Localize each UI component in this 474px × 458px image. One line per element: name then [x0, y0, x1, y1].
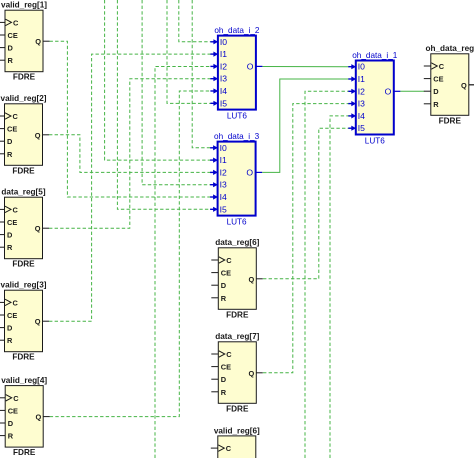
wire net data_reg[6].Q -> oh_data_i_1 I5: [263, 128, 349, 279]
svg-text:CE: CE: [8, 406, 18, 415]
svg-text:D: D: [7, 324, 13, 333]
svg-text:O: O: [247, 61, 254, 71]
svg-text:LUT6: LUT6: [227, 218, 247, 227]
flip-flop valid_reg[4] (FDRE): [0, 376, 50, 457]
svg-text:D: D: [8, 44, 14, 53]
flip-flop data_reg[6] (FDRE): [211, 238, 262, 319]
svg-text:FDRE: FDRE: [12, 353, 35, 362]
wire net data_reg[5].Q -> oh_data_i_2 I3: [49, 79, 211, 229]
oh_data_i_3 pin I0: [210, 147, 215, 149]
svg-text:I0: I0: [220, 143, 227, 153]
flip-flop valid_reg[3] (FDRE): [0, 281, 49, 362]
oh_data_i_1 pin I5: [348, 127, 353, 129]
svg-text:CE: CE: [7, 125, 17, 134]
svg-text:D: D: [7, 137, 13, 146]
svg-text:Q: Q: [35, 317, 41, 326]
svg-text:C: C: [13, 112, 19, 121]
svg-text:I2: I2: [220, 167, 227, 177]
svg-text:I4: I4: [220, 192, 227, 202]
svg-text:I1: I1: [220, 155, 227, 165]
svg-text:CE: CE: [7, 311, 17, 320]
svg-text:oh_data_reg: oh_data_reg: [425, 44, 474, 53]
svg-text:CE: CE: [7, 218, 17, 227]
wire net valid_reg[2].Q -> oh_data_i_3 I2: [49, 135, 211, 173]
svg-text:CE: CE: [8, 31, 18, 40]
LUT6 oh_data_i_1: [348, 51, 400, 146]
svg-text:LUT6: LUT6: [227, 112, 247, 121]
oh_data_i_1 pin I4: [348, 115, 353, 117]
svg-text:Q: Q: [461, 81, 467, 90]
svg-text:FDRE: FDRE: [12, 166, 35, 175]
svg-text:LUT6: LUT6: [365, 137, 385, 146]
svg-text:I1: I1: [220, 49, 227, 59]
svg-text:Q: Q: [249, 275, 255, 284]
svg-text:data_reg[7]: data_reg[7]: [215, 332, 259, 341]
svg-text:I0: I0: [220, 37, 227, 47]
svg-text:I4: I4: [358, 111, 365, 121]
svg-text:R: R: [221, 294, 227, 303]
svg-text:I1: I1: [358, 74, 365, 84]
oh_data_i_3 pin I1: [210, 159, 215, 161]
LUT6 oh_data_i_2: [210, 26, 262, 121]
svg-text:FDRE: FDRE: [226, 310, 249, 319]
flip-flop valid_reg[2] (FDRE): [0, 94, 49, 175]
wire net oh_data_i_1.O -> oh_data_reg D: [400, 90, 424, 92]
svg-text:data_reg[6]: data_reg[6]: [215, 238, 259, 247]
wire net from top -> oh_data_i_2 I0: [179, 0, 211, 42]
svg-text:I2: I2: [220, 61, 227, 71]
svg-text:Q: Q: [35, 224, 41, 233]
svg-text:FDRE: FDRE: [13, 448, 36, 457]
svg-text:I4: I4: [220, 86, 227, 96]
svg-text:C: C: [226, 350, 232, 359]
wire net from top -> oh_data_i_3 I1: [105, 0, 211, 160]
svg-text:Q: Q: [249, 369, 255, 378]
svg-text:oh_data_i_3: oh_data_i_3: [214, 132, 260, 141]
oh_data_i_2 pin I4: [210, 90, 215, 92]
svg-text:R: R: [8, 56, 14, 65]
svg-text:I3: I3: [220, 180, 227, 190]
svg-text:C: C: [13, 205, 19, 214]
svg-text:D: D: [221, 281, 227, 290]
svg-text:CE: CE: [221, 269, 231, 278]
svg-text:I5: I5: [220, 98, 227, 108]
svg-text:I0: I0: [358, 62, 365, 72]
oh_data_i_2 pin I3: [210, 78, 215, 80]
svg-text:FDRE: FDRE: [12, 260, 35, 269]
wire net from top -> oh_data_i_3 I0: [192, 0, 211, 148]
oh_data_i_3 pin I5: [210, 208, 215, 210]
svg-text:R: R: [7, 336, 13, 345]
svg-text:D: D: [8, 419, 14, 428]
svg-text:C: C: [13, 394, 19, 403]
oh_data_i_2 pin I0: [210, 41, 215, 43]
svg-text:R: R: [8, 432, 14, 441]
svg-text:oh_data_i_2: oh_data_i_2: [214, 26, 260, 35]
oh_data_i_2 pin I1: [210, 53, 215, 55]
wire net from bottom -> oh_data_i_1 I2: [305, 91, 349, 458]
wire net oh_data_i_3.O -> oh_data_i_1 I1: [262, 79, 349, 172]
svg-text:D: D: [7, 231, 13, 240]
flip-flop data_reg[7] (FDRE): [211, 332, 262, 413]
svg-text:Q: Q: [35, 37, 41, 46]
oh_data_i_1 pin I1: [348, 78, 353, 80]
wire net from bottom -> oh_data_i_2 I2: [155, 67, 211, 458]
svg-text:R: R: [7, 243, 13, 252]
flip-flop valid_reg[6] (FDRE): [211, 426, 260, 458]
LUT6 oh_data_i_3: [210, 132, 262, 227]
svg-text:valid_reg[6]: valid_reg[6]: [214, 426, 260, 435]
wire net from top -> oh_data_i_3 I5: [117, 0, 210, 209]
svg-text:CE: CE: [433, 75, 443, 84]
svg-text:oh_data_i_1: oh_data_i_1: [352, 51, 398, 60]
wire net valid_reg[1].Q -> oh_data_i_3 I4: [50, 41, 211, 197]
wire net valid_reg[3].Q -> oh_data_i_2 I1: [49, 54, 211, 321]
svg-text:D: D: [433, 87, 439, 96]
oh_data_i_2 pin I5: [210, 102, 215, 104]
svg-text:C: C: [13, 298, 19, 307]
oh_data_i_3 pin I3: [210, 184, 215, 186]
svg-text:valid_reg[3]: valid_reg[3]: [1, 281, 47, 290]
svg-text:valid_reg[1]: valid_reg[1]: [1, 1, 47, 10]
oh_data_i_3 pin I4: [210, 196, 215, 198]
wire net from top -> oh_data_i_2 I5: [167, 0, 211, 103]
wire net data_reg[7].Q -> oh_data_i_1 I3: [263, 104, 349, 373]
svg-text:I3: I3: [358, 99, 365, 109]
svg-text:R: R: [221, 388, 227, 397]
svg-text:C: C: [226, 256, 232, 265]
oh_data_i_3 pin I2: [210, 171, 215, 173]
svg-text:C: C: [226, 444, 232, 453]
svg-text:I3: I3: [220, 74, 227, 84]
svg-text:I5: I5: [220, 204, 227, 214]
flip-flop data_reg[5] (FDRE): [0, 188, 49, 269]
svg-text:O: O: [385, 86, 392, 96]
oh_data_i_1 pin I2: [348, 90, 353, 92]
svg-text:CE: CE: [221, 363, 231, 372]
flip-flop valid_reg[1] (FDRE): [0, 1, 50, 82]
svg-text:data_reg[5]: data_reg[5]: [1, 188, 45, 197]
svg-text:I5: I5: [358, 123, 365, 133]
svg-text:FDRE: FDRE: [439, 116, 462, 125]
svg-text:I2: I2: [358, 86, 365, 96]
oh_data_reg pin Q stub to edge: [469, 84, 474, 86]
svg-text:C: C: [13, 18, 19, 27]
svg-text:FDRE: FDRE: [13, 73, 36, 82]
oh_data_i_1 pin I3: [348, 103, 353, 105]
flip-flop oh_data_reg (FDRE): [424, 44, 474, 125]
svg-text:FDRE: FDRE: [226, 404, 249, 413]
oh_data_i_2 pin I2: [210, 65, 215, 67]
svg-text:D: D: [221, 375, 227, 384]
svg-text:Q: Q: [35, 413, 41, 422]
wire net from bottom -> oh_data_i_1 I4: [330, 116, 349, 458]
svg-text:Q: Q: [35, 131, 41, 140]
wire net valid_reg[4].Q -> oh_data_i_2 I4: [50, 91, 211, 417]
svg-text:R: R: [7, 150, 13, 159]
svg-text:valid_reg[2]: valid_reg[2]: [1, 94, 47, 103]
oh_data_i_1 pin I0: [348, 66, 353, 68]
svg-text:R: R: [433, 100, 439, 109]
wire net oh_data_i_2.O -> oh_data_i_1 I0: [262, 66, 348, 68]
svg-text:C: C: [439, 62, 445, 71]
svg-text:valid_reg[4]: valid_reg[4]: [1, 376, 47, 385]
svg-text:O: O: [246, 167, 253, 177]
wire net from top -> oh_data_i_3 I3: [142, 0, 211, 185]
